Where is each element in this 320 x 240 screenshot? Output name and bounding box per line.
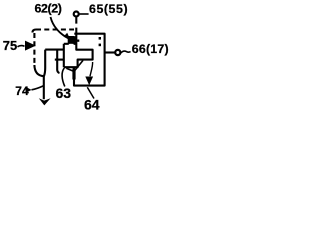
svg-text:66(17): 66(17) xyxy=(132,42,169,56)
svg-text:64: 64 xyxy=(84,96,100,112)
svg-text:63: 63 xyxy=(56,85,72,101)
svg-text:62(2): 62(2) xyxy=(35,1,62,15)
svg-text:65(55): 65(55) xyxy=(89,2,128,16)
svg-text:75: 75 xyxy=(3,38,17,53)
svg-text:74: 74 xyxy=(15,84,29,98)
